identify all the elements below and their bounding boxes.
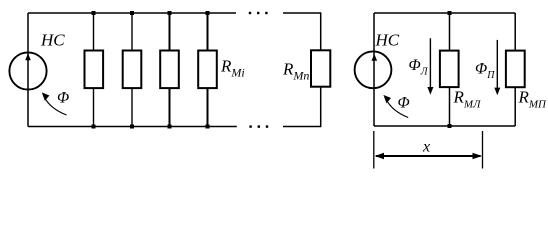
ellipsis dots bottom (continuation) — [249, 125, 251, 127]
resistor RMn — [311, 50, 330, 86]
curved arrow: flux Φ into left source — [44, 97, 66, 115]
node: junction dot branch4 top — [206, 11, 210, 15]
wire: left circuit left vertical (source branch) — [27, 13, 29, 127]
resistor branch 2 — [123, 51, 142, 89]
arrowhead of flux Φ (left) — [42, 92, 50, 101]
dimension arrowhead left — [375, 153, 385, 159]
node: junction dot branch1 bottom — [92, 125, 96, 129]
wire: right circuit top bus — [374, 12, 515, 14]
wire: RMn branch bottom stub — [283, 126, 321, 128]
dimension extension line right — [482, 131, 484, 169]
svg-text:RМЛ: RМЛ — [453, 88, 482, 111]
wire: RMn branch top stub — [283, 12, 321, 14]
arrow: flux ΦП (down arrow, right gap) — [496, 40, 498, 90]
svg-text:RМП: RМП — [518, 88, 548, 111]
wire: middle branch vertical (RМЛ) — [449, 13, 451, 126]
svg-text:НС: НС — [375, 31, 400, 50]
node: junction dot middle branch bottom — [448, 124, 452, 128]
arrow: flux ΦЛ (down arrow, left gap) — [429, 38, 431, 89]
dimension arrowhead right — [473, 153, 483, 159]
node: junction dot branch2 bottom — [130, 125, 134, 129]
wire: branch 4 vertical — [207, 13, 209, 127]
node: junction dot middle branch top — [448, 11, 452, 15]
resistor branch 3 — [160, 51, 179, 89]
svg-text:ΦЛ: ΦЛ — [409, 57, 429, 78]
node: junction dot branch1 top — [92, 11, 96, 15]
wire: left circuit top bus — [28, 12, 236, 14]
wire: branch 3 vertical — [169, 13, 171, 127]
dimension line x — [376, 155, 481, 157]
node: junction dot branch3 bottom — [168, 125, 172, 129]
node: junction dot branch2 top — [130, 11, 134, 15]
resistor RМП — [506, 51, 525, 88]
svg-text:RМn: RМn — [282, 60, 309, 83]
source U2 arrow head — [372, 54, 378, 61]
wire: right circuit bottom bus — [374, 125, 515, 127]
svg-text:Φ: Φ — [398, 95, 410, 112]
wire: RMn branch vertical — [320, 13, 322, 127]
resistor RМЛ — [440, 51, 459, 88]
svg-text:ΦП: ΦП — [475, 61, 495, 82]
node: junction dot branch4 bottom — [206, 125, 210, 129]
svg-text:Φ: Φ — [57, 90, 69, 107]
source U1 arrow head (direction of MMF) — [25, 53, 31, 60]
arrowhead ΦП — [494, 88, 500, 96]
curved arrow: flux Φ into right source — [386, 100, 408, 118]
node: junction dot branch3 top — [168, 11, 172, 15]
wire: branch 2 vertical — [131, 13, 133, 127]
source U2 circle (MMF source НС, right) — [355, 51, 392, 88]
wire: branch 1 vertical — [93, 13, 95, 127]
ellipsis dots top (continuation) — [249, 12, 251, 14]
dimension extension line left — [373, 131, 375, 169]
svg-text:НС: НС — [40, 31, 65, 50]
wire: left circuit bottom bus — [28, 126, 237, 128]
arrowhead of flux Φ (right) — [383, 95, 391, 104]
resistor RMi (branch 4) — [198, 51, 217, 89]
arrowhead ΦЛ — [427, 87, 433, 95]
svg-text:x: x — [422, 139, 430, 156]
resistor branch 1 — [85, 51, 104, 89]
wire: right edge vertical (RМП branch) — [514, 13, 516, 126]
source U1 circle (MMF source НС, left) — [9, 52, 46, 89]
wire: right circuit left vertical (source branch) — [373, 13, 375, 126]
svg-text:RМi: RМi — [220, 57, 245, 80]
